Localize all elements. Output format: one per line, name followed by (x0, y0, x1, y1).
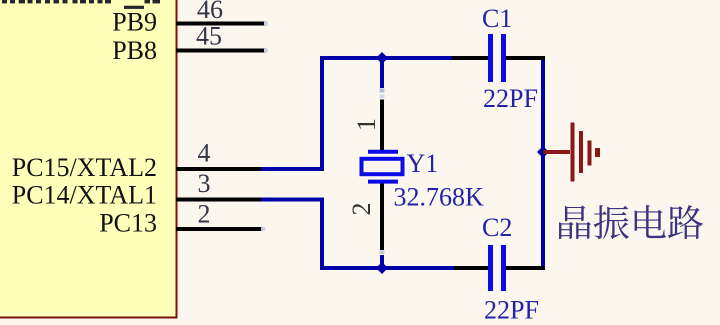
svg-text:PC15/XTAL2: PC15/XTAL2 (12, 153, 157, 182)
svg-text:PB9: PB9 (112, 8, 157, 37)
pin label row 0 (clipped at top edge) (2, 0, 160, 9)
svg-text:2: 2 (347, 203, 376, 216)
crystal Y1 bottom plate (368, 180, 398, 184)
IC U1 body (partial, left edge) (0, 0, 177, 318)
svg-text:1: 1 (352, 118, 381, 131)
crystal Y1 top plate (368, 150, 398, 154)
crystal Y1 pin 2 lead (380, 182, 384, 250)
svg-text:22PF: 22PF (484, 296, 539, 325)
capacitor C2 pin left (454, 266, 488, 270)
svg-text:Y1: Y1 (407, 149, 439, 178)
pin 3 stub (176, 198, 263, 202)
wire crystal bottom stub (380, 251, 385, 255)
node junction ground tap (537, 146, 549, 158)
wire right rail (541, 56, 545, 270)
svg-text:PC14/XTAL1: PC14/XTAL1 (12, 181, 157, 210)
crystal Y1 pin 1 lead (380, 100, 384, 152)
capacitor C1 plates (491, 34, 504, 82)
svg-text:C2: C2 (482, 213, 512, 242)
pin 46 stub (176, 22, 266, 26)
ground symbol bar 3 (588, 141, 592, 166)
svg-text:46: 46 (197, 0, 223, 24)
svg-text:4: 4 (198, 139, 211, 168)
pin end grid ticks (faint) (261, 22, 268, 231)
ground symbol bar 2 (579, 131, 583, 173)
pin 45 stub (176, 49, 266, 53)
svg-text:3: 3 (198, 169, 211, 198)
ground symbol tap line (543, 150, 570, 154)
svg-text:PC13: PC13 (99, 209, 157, 238)
node junction bottom (376, 262, 388, 274)
svg-text:C1: C1 (482, 4, 512, 33)
svg-text:PB8: PB8 (112, 36, 157, 65)
wire crystal top stub (380, 58, 384, 88)
svg-text:32.768K: 32.768K (394, 183, 485, 212)
wire bottom rail (320, 266, 456, 270)
ground symbol bar 1 (571, 123, 575, 182)
pin 2 stub (176, 227, 263, 231)
crystal Y1 body (362, 159, 403, 174)
node junction top (376, 52, 388, 64)
wire pin4 to top rail (261, 58, 322, 169)
pin 4 stub (176, 167, 263, 171)
capacitor C2 plates (491, 245, 504, 291)
title text 晶振电路 (559, 205, 703, 239)
svg-text:2: 2 (198, 200, 211, 229)
svg-text:45: 45 (196, 22, 222, 51)
capacitor C1 pin left (452, 56, 488, 60)
capacitor C2 pin right (506, 266, 545, 270)
capacitor C1 pin right (506, 56, 545, 60)
svg-text:22PF: 22PF (483, 84, 538, 113)
wire pin3 to bottom rail (261, 200, 322, 269)
wire top rail (320, 56, 454, 60)
ground symbol bar 4 (595, 148, 600, 157)
